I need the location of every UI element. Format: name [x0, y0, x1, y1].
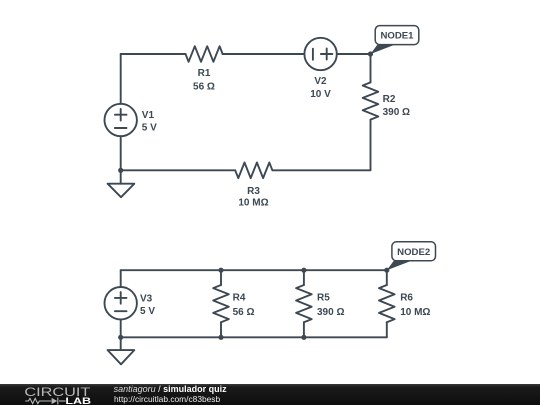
wire V3 bottom — [120, 319, 122, 337]
label R3 value — [238, 186, 268, 208]
CircuitLab logo — [0, 384, 100, 405]
wire V3 top — [120, 270, 122, 287]
junction dot (R5 bottom) — [301, 335, 306, 340]
svg-text:5 V: 5 V — [142, 123, 157, 134]
label R2 value — [383, 94, 410, 118]
ground (circuit 1) — [108, 170, 135, 197]
svg-text:10 V: 10 V — [310, 89, 331, 100]
wire top-left horizontal (V1 top to R1) — [121, 53, 186, 55]
wire R1 to V2 — [223, 53, 305, 55]
svg-text:R1: R1 — [198, 68, 211, 79]
label V3 value — [140, 294, 155, 318]
svg-text:R4: R4 — [233, 293, 246, 304]
node NODE1 flag — [371, 26, 419, 54]
svg-text:390 Ω: 390 Ω — [383, 107, 410, 118]
wire R4 bottom lead — [220, 322, 222, 337]
voltage source V1 — [105, 104, 137, 136]
svg-text:10 MΩ: 10 MΩ — [400, 307, 430, 318]
wire left vertical (corner to V1 top) — [120, 54, 122, 104]
svg-text:R3: R3 — [247, 186, 260, 197]
svg-text:56 Ω: 56 Ω — [193, 82, 215, 93]
label R6 value — [400, 293, 430, 318]
resistor R4 — [213, 285, 229, 322]
label R4 value — [233, 293, 255, 318]
voltage source V3 — [105, 287, 137, 319]
svg-text:5 V: 5 V — [140, 306, 155, 317]
footer text line 2 — [114, 394, 220, 404]
wire right vertical (node to R2) — [370, 54, 372, 82]
node NODE2 flag — [387, 242, 436, 270]
footer bar — [0, 384, 540, 405]
junction dot (V3 bottom) — [118, 335, 123, 340]
svg-text:390 Ω: 390 Ω — [317, 307, 344, 318]
svg-text:R5: R5 — [317, 293, 330, 304]
junction dot (V1 bottom) — [118, 168, 123, 173]
junction dot (R4 top) — [218, 268, 223, 273]
resistor R2 — [363, 82, 379, 119]
wire R6 top lead — [386, 270, 388, 285]
svg-text:V2: V2 — [314, 76, 327, 87]
wire R4 top lead — [220, 270, 222, 285]
svg-text:56 Ω: 56 Ω — [233, 307, 255, 318]
footer text line 1 — [114, 385, 227, 395]
voltage source V2 — [304, 38, 336, 70]
junction dot (R5 top) — [301, 268, 306, 273]
wire R3 to bottom-left junction — [121, 169, 236, 171]
node NODE2 junction dot — [384, 268, 389, 273]
svg-text:V3: V3 — [140, 294, 153, 305]
ground (circuit 2) — [108, 337, 135, 364]
resistor R3 — [235, 163, 272, 179]
junction dot (R4 bottom) — [218, 335, 223, 340]
svg-text:V1: V1 — [142, 110, 155, 121]
svg-text:NODE2: NODE2 — [397, 247, 430, 258]
svg-text:R6: R6 — [400, 293, 413, 304]
wire top of circuit 2 — [121, 269, 387, 271]
svg-text:LAB: LAB — [65, 395, 91, 405]
wire V1 bottom to junction — [120, 136, 122, 170]
svg-text:R2: R2 — [383, 94, 396, 105]
label V1 value — [142, 110, 157, 134]
label R1 value — [193, 68, 215, 93]
wire R2 to bottom corner — [272, 120, 370, 171]
resistor R6 — [379, 285, 395, 322]
resistor R1 — [186, 46, 223, 62]
wire R5 top lead — [303, 270, 305, 285]
node NODE1 junction dot — [368, 51, 373, 56]
label R5 value — [317, 293, 344, 318]
wire V2 to node — [337, 53, 371, 55]
wire R6 bottom lead — [386, 322, 388, 337]
label V2 value — [310, 76, 331, 100]
resistor R5 — [296, 285, 312, 322]
svg-text:NODE1: NODE1 — [380, 31, 414, 42]
wire R5 bottom lead — [303, 322, 305, 337]
svg-text:10 MΩ: 10 MΩ — [238, 197, 268, 208]
wire bottom of circuit 2 — [121, 336, 387, 338]
